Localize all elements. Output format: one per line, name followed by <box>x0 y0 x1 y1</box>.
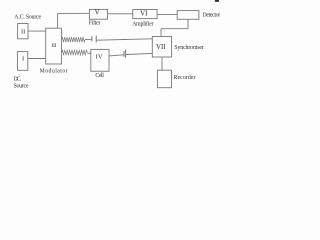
wire C2 to VII lower input <box>126 53 152 54</box>
svg-text:V: V <box>95 9 100 17</box>
stray ink mark top right <box>215 0 219 2</box>
box VI Amplifier <box>133 10 157 19</box>
svg-text:Modulator: Modulator <box>40 69 68 75</box>
wire coil to capacitor C1 <box>85 38 92 40</box>
wire IV to capacitor C2 <box>109 55 124 56</box>
svg-text:Filter: Filter <box>89 21 101 27</box>
svg-text:Detector: Detector <box>203 13 221 19</box>
svg-text:Cell: Cell <box>95 73 104 79</box>
svg-text:Recorder: Recorder <box>174 75 196 81</box>
box II (A.C. source) <box>18 24 28 39</box>
wire into VII top <box>160 29 162 37</box>
wire V to VI <box>107 13 132 15</box>
box III Modulator <box>46 28 62 64</box>
svg-text:IV: IV <box>96 54 103 61</box>
box IV Cell <box>91 49 109 71</box>
resistor coil bottom (III to cell) <box>62 50 88 55</box>
box Detector <box>177 11 199 20</box>
wire VII to Recorder <box>161 57 163 70</box>
svg-text:VII: VII <box>156 43 166 51</box>
box I (D.C. source) <box>17 52 27 71</box>
capacitor C2 plates <box>123 51 125 57</box>
resistor coil top (III output) <box>62 37 85 42</box>
box VII Synchroniser <box>152 37 171 58</box>
svg-text:D.C.: D.C. <box>14 77 22 83</box>
box Recorder <box>157 70 171 88</box>
wire horizontal to VII <box>161 28 188 30</box>
svg-text:Source: Source <box>14 84 29 90</box>
wire III top up <box>57 13 59 28</box>
wire VI to Detector <box>157 13 177 15</box>
wire Detector down <box>187 19 189 28</box>
svg-text:Amplifier: Amplifier <box>132 20 153 27</box>
wire II to III <box>28 30 45 32</box>
svg-text:VI: VI <box>140 10 148 18</box>
svg-text:Synchroniser: Synchroniser <box>174 45 203 51</box>
wire coil to cell IV <box>88 52 91 54</box>
wire C1 to VII upper input <box>97 39 153 40</box>
svg-text:II: II <box>21 29 25 36</box>
wire top rail to V <box>58 12 90 14</box>
svg-text:A.C. Source: A.C. Source <box>14 15 41 21</box>
svg-text:III: III <box>52 44 57 49</box>
capacitor C1 plates <box>91 36 93 41</box>
svg-text:I: I <box>22 55 24 62</box>
wire I to III <box>28 58 46 60</box>
box V Filter <box>89 9 107 19</box>
